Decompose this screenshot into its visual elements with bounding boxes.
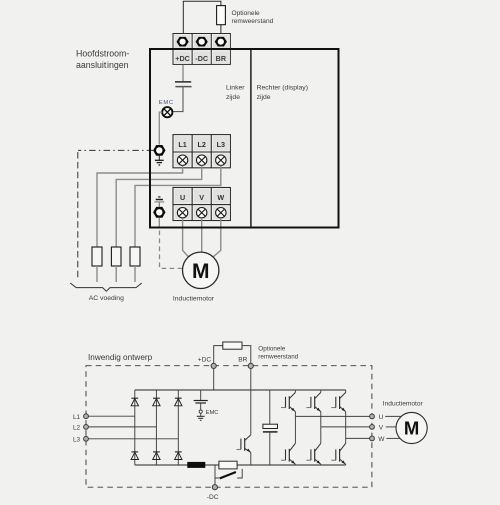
screw terminal U [177,208,187,218]
wire L1 to rectifier [88,415,134,417]
wire IGBT Q3H emitter to phase W [345,412,347,439]
wire EMC screw to earth bolt [159,112,162,144]
svg-text:M: M [192,260,210,283]
label BR [216,54,227,63]
wire IGBT Q1H emitter to phase U [294,412,296,417]
svg-text:U: U [379,414,384,421]
diode D3 (upper leg3) [175,398,182,406]
wire IGBT Q2H emitter to phase V [320,412,322,427]
wire V terminal to motor [386,426,397,428]
svg-text:EMC: EMC [159,100,174,106]
label +DC [175,54,190,63]
screw terminal V [196,208,206,218]
DC- bus [135,464,346,466]
drive enclosure box [150,49,339,228]
wire phase W to IGBT Q3L collector [345,438,347,443]
label -DC (bottom) [207,494,219,501]
svg-text:Inductiemotor: Inductiemotor [173,296,215,303]
svg-text:-DC: -DC [195,54,208,63]
wire L1 to fuse 1 [97,166,183,248]
svg-text:L1: L1 [73,414,81,421]
label BR (bottom) [238,356,247,363]
wire U to motor [183,218,189,257]
svg-text:Linker: Linker [226,85,245,92]
svg-text:Hoofdstroom-: Hoofdstroom- [76,49,129,59]
dashed earth wire to motor [160,231,183,269]
diode D6 (lower leg3) [175,452,182,460]
fuse F3 [130,247,140,282]
svg-text:AC voeding: AC voeding [89,295,124,302]
diode D5 (lower leg2) [153,452,160,460]
label Inwendig ontwerp [88,353,153,362]
node L3 terminal [84,436,89,441]
svg-text:+DC: +DC [198,356,212,363]
rectifier leg 3 wire [177,390,179,465]
label V [199,193,204,202]
IGBT Q2H (upper, phase V) [306,392,320,411]
svg-text:L2: L2 [73,425,81,432]
wire W terminal to motor [386,437,401,439]
wire U terminal to motor [385,415,401,417]
svg-text:EMC: EMC [206,410,219,416]
label U [180,193,185,202]
node +DC (junction dot) [211,363,216,368]
DC link capacitor wire to DC- bus [269,433,271,465]
wire resistor to BR terminal [220,25,222,34]
wire IGBT Q3L emitter to DC- bus [345,463,347,466]
dashed boundary box Inwendig ontwerp [86,366,372,488]
DC choke (black) on DC- bus [188,462,205,467]
wire phase U to IGBT Q1L collector [294,416,296,443]
wire W to motor [213,218,221,257]
label +DC (bottom) [198,356,212,363]
brace AC voeding [70,283,142,291]
wire phase U to terminal [295,415,369,417]
terminal block +DC/-DC/BR body [173,34,230,65]
svg-text:aansluit ingen: aansluit ingen [76,60,129,70]
svg-text:L3: L3 [73,436,81,443]
label Rechter (display) zijde [257,85,308,102]
node L2 terminal [84,425,89,430]
svg-text:Optionele: Optionele [232,10,261,17]
svg-text:BR: BR [216,54,227,63]
terminal block L1/L2/L3 body [173,135,230,168]
label EMC (top diagram) [159,100,174,106]
wire L2 to rectifier [88,426,156,428]
wire brake IGBT emitter to DC- bus [250,452,252,465]
hex nut terminal -DC [196,37,208,47]
svg-text:V: V [199,193,204,202]
wire IGBT Q1L emitter to DC- bus [294,463,296,466]
divider between left and right side [250,49,252,228]
earth bolt upper (hex) [153,145,165,156]
wire phase W to terminal [346,437,370,439]
svg-text:BR: BR [238,356,247,363]
wire DC+ bus to IGBT Q1H collector [294,390,296,392]
label AC voeding [89,295,124,302]
motor M (top diagram) [183,252,219,288]
wire V to motor [201,218,203,252]
wire L2 to fuse 2 [116,166,202,248]
label Inductiemotor (bottom) [383,400,424,407]
svg-text:L2: L2 [197,140,205,149]
wire phase V to terminal [321,426,370,428]
wire +DC node to DC+ bus [213,369,215,391]
rectifier leg 2 wire [155,390,157,465]
IGBT Q1H (upper, phase U) [281,392,295,411]
wire BR node down to brake IGBT [250,369,252,435]
label V (bottom) [379,425,384,432]
screw terminal L1 [177,155,187,165]
label L2 (bottom) [73,425,81,432]
DC link capacitor C1 [263,424,278,432]
hex nut terminal BR [215,37,227,47]
EMC capacitor branch wire [200,390,202,400]
svg-text:Rechter (display): Rechter (display) [257,85,308,92]
svg-text:Inwendig ontwerp: Inwendig ontwerp [88,353,153,362]
wire DC+ bus to IGBT Q2H collector [320,390,322,392]
wire IGBT Q2L emitter to DC- bus [320,463,322,466]
svg-text:zijde: zijde [257,94,271,101]
label W [217,193,224,202]
DC+ bus [135,389,346,391]
EMC capacitor (bottom) [194,401,208,404]
label L3 (bottom) [73,436,81,443]
dash-dot line earth bolt to AC supply boundary [78,149,153,151]
ground symbol under upper bolt [155,156,164,165]
IGBT Q3L (lower, phase W) [331,443,345,464]
label Inductiemotor (top) [173,296,215,303]
wire internal resistor to BR node [242,346,251,366]
wire capacitor down and left to EMC screw [173,87,183,111]
screw terminal W [216,208,226,218]
fuse F1 [92,247,102,282]
label L3 [217,140,225,149]
svg-text:remweerstand: remweerstand [232,18,274,25]
node -DC (junction dot) [212,485,217,490]
svg-text:remweerstand: remweerstand [258,353,298,360]
earth bolt lower (hex) [153,207,165,218]
DC link capacitor wire from DC+ bus [269,390,271,424]
svg-text:U: U [180,193,185,202]
screw terminal L3 [216,155,226,165]
svg-text:V: V [379,425,384,432]
svg-text:+DC: +DC [175,54,190,63]
label EMC (bottom) [206,410,219,416]
drive enclosure box border overdraw [150,49,339,228]
label U (bottom) [379,414,384,421]
EMC screw terminal [162,107,172,117]
IGBT Q1L (lower, phase U) [281,443,295,464]
label Optionele remweerstand (bottom) [258,346,298,361]
ground symbol EMC branch [197,413,205,420]
diode D4 (lower leg1) [131,452,138,460]
label L1 (bottom) [73,414,81,421]
inrush resistor on DC- bus [219,461,237,469]
node V terminal [370,425,375,430]
svg-text:Optionele: Optionele [258,346,285,353]
rectifier leg 1 wire [134,390,136,465]
wire +DC node up to internal brake resistor [214,346,223,366]
fuse F2 [111,247,121,282]
screw terminal L2 [196,155,206,165]
motor M (bottom diagram) [396,412,427,443]
PE symbol above lower bolt [154,197,164,207]
wire L3 to fuse 3 [135,166,221,248]
label Hoofdstroomaansluitingen [76,49,129,71]
diode D2 (upper leg2) [153,398,160,406]
wire lower bolt through box bottom [158,218,160,227]
EMC test point (open circle) [199,410,202,413]
diode D1 (upper leg1) [131,398,138,406]
label W (bottom) [378,436,385,443]
node U terminal [370,414,375,419]
svg-text:Inductiemotor: Inductiemotor [383,400,424,407]
label L1 [178,140,186,149]
IGBT Q3H (upper, phase W) [331,392,345,411]
svg-text:W: W [217,193,224,202]
hex nut terminal +DC [177,37,189,47]
node L1 terminal [84,414,89,419]
IGBT Q2L (lower, phase V) [306,443,320,464]
label Linker zijde [226,85,245,102]
svg-text:W: W [378,436,385,443]
terminal block U/V/W body [173,188,230,221]
svg-text:zijde: zijde [226,94,240,101]
IGBT Q7 (brake chopper) [236,435,250,453]
wire from +DC terminal up and over to braking resistor [183,1,221,33]
wire DC+ bus to IGBT Q3H collector [345,390,347,392]
svg-text:M: M [404,418,419,439]
bypass relay branch [215,465,242,478]
resistor R-brake internal [223,342,242,349]
svg-text:L1: L1 [178,140,186,149]
svg-text:L3: L3 [217,140,225,149]
wire EMC cap to test point [200,404,202,410]
wire phase V to IGBT Q2L collector [320,427,322,443]
node BR (junction dot) [248,363,253,368]
node W terminal [370,436,375,441]
resistor R-brake (optionele remweerstand) [217,6,226,25]
wire junction to -DC node [214,478,216,485]
label Optionele remweerstand (top) [232,10,274,25]
wire +DC down to capacitor [182,64,184,81]
label L2 [197,140,205,149]
svg-text:-DC: -DC [207,494,219,500]
label -DC [195,54,208,63]
dash-dot boundary vertical (AC voeding) [77,152,79,279]
capacitor C-dc (between +DC and EMC screw) [175,82,192,87]
wire L3 to rectifier [88,438,178,440]
